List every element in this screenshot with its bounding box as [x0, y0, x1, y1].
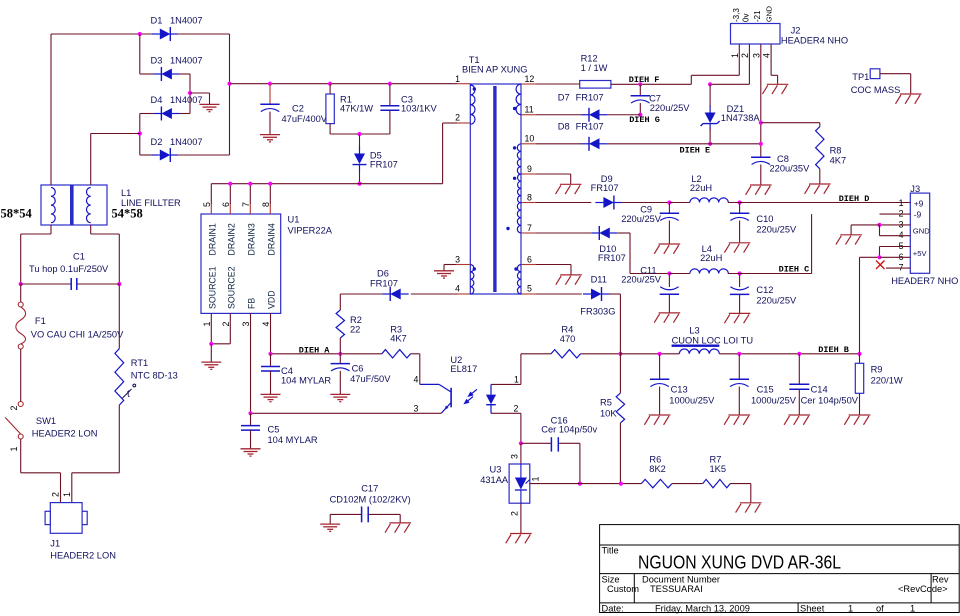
terminal F1 top [18, 302, 23, 307]
svg-text:22: 22 [350, 325, 360, 335]
capacitor C5 104 MYLAR [241, 426, 260, 431]
svg-text:-3,3: -3,3 [732, 8, 741, 22]
svg-text:58*54: 58*54 [1, 207, 33, 221]
label C4 value [281, 366, 331, 386]
wire TP1 to ground [880, 74, 911, 94]
svg-text:D3: D3 [151, 56, 163, 66]
svg-text:<RevCode>: <RevCode> [898, 584, 948, 594]
svg-text:NGUON XUNG DVD AR-36L: NGUON XUNG DVD AR-36L [638, 552, 841, 573]
junction R4/D11/R5 node [618, 352, 622, 356]
capacitor C7 220u/25V [631, 96, 650, 103]
svg-text:4: 4 [762, 53, 772, 58]
label TP1 COC MASS [851, 72, 901, 95]
svg-text:D6: D6 [377, 269, 389, 279]
svg-text:104 MYLAR: 104 MYLAR [268, 435, 318, 445]
wire C8 to ground [760, 165, 762, 185]
svg-text:C17: C17 [361, 484, 378, 494]
svg-text:HEADER4 NHO: HEADER4 NHO [781, 36, 848, 46]
RT1 t-degree mark [123, 384, 136, 400]
svg-text:2: 2 [509, 511, 519, 516]
svg-text:Friday, March 13, 2009: Friday, March 13, 2009 [655, 603, 750, 613]
wire L1 right bottom [91, 225, 120, 284]
svg-text:22uH: 22uH [690, 183, 712, 193]
wire J3 pin7 stub [886, 267, 910, 269]
svg-text:C12: C12 [756, 285, 773, 295]
svg-text:C5: C5 [268, 425, 280, 435]
pin stub U1 pin 5 [210, 204, 212, 214]
svg-text:Size: Size [602, 574, 620, 584]
diode D6 FR107 [382, 287, 409, 301]
pin numbers T1 left [455, 74, 460, 294]
svg-text:1N4738A: 1N4738A [721, 113, 761, 123]
wire SW1 to J1 [21, 439, 61, 503]
wire L4 left lead [669, 273, 690, 275]
pin stub T1 pin1 [457, 83, 470, 85]
svg-text:1K5: 1K5 [710, 464, 727, 474]
diode D2 1N4007 [152, 148, 179, 162]
resistor R2 22 [336, 310, 344, 338]
wire into D3 cathode [140, 73, 154, 75]
T1 winding dot pin6 [514, 267, 517, 270]
svg-text:HEADER7 NHO: HEADER7 NHO [891, 276, 958, 286]
svg-text:J3: J3 [910, 184, 920, 194]
wire T1 pin3 to ground [444, 265, 456, 271]
wire C17 left lead [330, 514, 361, 523]
wire C13 to ground [659, 387, 661, 415]
svg-text:7: 7 [241, 202, 251, 207]
label D5 value [370, 151, 398, 170]
ground C8 [746, 185, 772, 195]
zener DZ1 1N4738A [701, 106, 720, 131]
svg-text:FR107: FR107 [370, 160, 398, 170]
label D6 value [370, 269, 398, 289]
switch SW1 lever [5, 418, 21, 435]
svg-text:220u/35V: 220u/35V [770, 164, 811, 174]
wire J3 pin2 stub [880, 213, 911, 215]
junction R2/C6 node [338, 352, 342, 356]
wire J3 gnd branch [851, 225, 879, 235]
wire D2 cathode to output [178, 154, 229, 156]
svg-text:VO CAU CHI 1A/250V: VO CAU CHI 1A/250V [31, 330, 124, 340]
svg-text:HEADER2 LON: HEADER2 LON [50, 551, 116, 561]
junction L4/C12 node [738, 271, 742, 275]
svg-text:54*58: 54*58 [112, 207, 143, 221]
wire J3 pin5 stub [880, 246, 911, 248]
svg-text:CD102M (102/2KV): CD102M (102/2KV) [330, 495, 411, 505]
svg-text:J2: J2 [791, 26, 801, 36]
label R5 value [600, 398, 617, 419]
junction D1 anode node [138, 32, 142, 36]
connector J1 HEADER2 LON body [45, 503, 87, 534]
svg-text:SOURCE1: SOURCE1 [208, 266, 218, 309]
label T1 BIEN AP XUNG [462, 55, 527, 75]
wire R2 top lead [339, 294, 341, 310]
svg-text:DIEH F: DIEH F [629, 75, 660, 85]
ground C2 [260, 135, 280, 142]
svg-text:DIEH A: DIEH A [299, 346, 331, 356]
testpoint TP1 COC MASS [870, 69, 880, 79]
svg-text:Sheet: Sheet [800, 603, 825, 613]
svg-text:CUON LOC LOI TU: CUON LOC LOI TU [672, 336, 753, 346]
svg-text:of: of [876, 603, 884, 613]
wire C1 right to RT1 [118, 284, 120, 349]
svg-text:-21: -21 [753, 10, 762, 22]
label D1 1N4007 [151, 16, 203, 26]
svg-text:47uF/50V: 47uF/50V [350, 374, 391, 384]
T1 winding dot pin7 [506, 227, 509, 230]
pin numbers T1 right [525, 74, 535, 294]
junction +5V/R9 node [857, 352, 861, 356]
svg-text:NTC 8D-13: NTC 8D-13 [131, 371, 178, 381]
svg-text:4: 4 [414, 375, 419, 385]
svg-text:Custom: Custom [607, 584, 639, 594]
resistor R1 47K/1W [326, 94, 334, 124]
ground bridge [200, 104, 220, 111]
wire C9 top lead [668, 203, 670, 214]
transformer T1 body [470, 84, 521, 294]
T1 winding dot pin3 [473, 267, 476, 270]
svg-text:D8: D8 [558, 122, 570, 132]
svg-text:6: 6 [527, 255, 532, 265]
svg-text:220/1W: 220/1W [871, 376, 903, 386]
wire J2 pin3 vertical [760, 44, 762, 157]
pin names J3 [913, 198, 930, 258]
capacitor C1 Tu hop 0.1uF/250V [71, 278, 77, 290]
wire T1 pin12 to R12 [536, 83, 580, 85]
svg-text:3: 3 [751, 53, 761, 58]
pin stub T1 pin10 [521, 143, 536, 145]
wire C7 bottom lead [639, 103, 641, 115]
T1 secondary winding 12-11 [516, 84, 521, 115]
diode D7 FR107 [581, 108, 608, 122]
L1 right winding [86, 188, 90, 223]
svg-text:3: 3 [455, 255, 460, 265]
resistor R4 470 [551, 350, 581, 358]
junction VDD/C4 node [268, 352, 272, 356]
T1 winding dot pin1 [473, 87, 476, 90]
wire bridge output vertical [229, 34, 231, 155]
wire R4 left lead [521, 353, 551, 355]
junction D3/D4 ground node [188, 91, 192, 95]
svg-text:D1: D1 [151, 16, 163, 26]
svg-text:4: 4 [261, 322, 271, 327]
label U2 EL817 [450, 355, 477, 374]
junction D4/D2 node [138, 131, 142, 135]
pin stub T1 pin4 [457, 293, 470, 295]
opto U2 LED [486, 384, 496, 413]
label C6 value [350, 364, 391, 385]
svg-text:GND: GND [764, 6, 773, 22]
wire R4 to node [581, 353, 621, 355]
svg-text:TP1: TP1 [852, 72, 869, 82]
label R7 value [710, 455, 727, 475]
svg-text:T1: T1 [469, 55, 480, 65]
svg-text:1: 1 [848, 603, 853, 613]
label C11 value [621, 266, 662, 285]
svg-text:22uH: 22uH [700, 253, 722, 263]
wire C6 to ground [339, 371, 341, 394]
svg-text:1000u/25V: 1000u/25V [751, 396, 797, 406]
wire C15 top lead [738, 354, 740, 380]
label R12 value [581, 54, 608, 74]
wire U3 cathode to ground [520, 503, 522, 533]
svg-text:L3: L3 [689, 326, 699, 336]
svg-text:C4: C4 [281, 366, 293, 376]
label L1 LINE FILLTER [121, 188, 181, 208]
wire R8 to ground [819, 169, 821, 184]
junction U2 pin2/C16/U3 node [519, 441, 523, 445]
L1 core bar [70, 185, 74, 225]
label C12 value [756, 285, 797, 306]
junction U1 pin 7 on drain bus [248, 182, 252, 186]
label J3 HEADER7 NHO [891, 184, 958, 286]
wire U3 ref pin [520, 443, 522, 464]
svg-text:Rev: Rev [932, 574, 949, 584]
svg-text:1: 1 [62, 492, 72, 497]
svg-text:8: 8 [527, 193, 532, 203]
label J1 HEADER2 LON [50, 539, 116, 561]
capacitor C10 220u/25V [730, 213, 749, 220]
ic U3 431AA body [509, 464, 530, 503]
label L3 [672, 326, 753, 346]
junction C15 node [737, 352, 741, 356]
svg-text:DIEH E: DIEH E [680, 145, 711, 155]
T1 winding dot pin9 [513, 177, 516, 180]
ic U1 VIPER22A body [201, 214, 281, 313]
title block frame [600, 525, 960, 613]
svg-text:9: 9 [527, 164, 532, 174]
wire J3 pin3 stub [880, 224, 911, 226]
svg-text:VIPER22A: VIPER22A [288, 226, 333, 236]
ground R7 [736, 503, 762, 513]
svg-text:R2: R2 [350, 315, 362, 325]
resistor R3 4K7 [382, 350, 411, 358]
wire C7 top lead [639, 84, 641, 95]
junction FB/C5 node [248, 411, 252, 415]
connector J2 HEADER4 NHO body [731, 24, 781, 45]
junction U1 pin 8 on drain bus [268, 182, 272, 186]
wire HV bus to T1 pin1 [230, 83, 458, 85]
svg-text:RT1: RT1 [131, 358, 148, 368]
capacitor C4 104 MYLAR [261, 367, 280, 372]
svg-text:2: 2 [455, 113, 460, 123]
junction DZ1 top node [708, 82, 712, 86]
capacitor C17 CD102M [362, 507, 369, 523]
svg-text:7: 7 [527, 223, 532, 233]
wire AC2 from L1 to bridge [91, 133, 140, 135]
svg-text:C15: C15 [757, 385, 774, 395]
svg-text:R8: R8 [830, 146, 842, 156]
wire C3 top lead [389, 84, 391, 106]
svg-text:2: 2 [514, 404, 519, 414]
label D9 value [591, 174, 619, 193]
capacitor C2 47uF/400V [260, 104, 279, 111]
fuse F1 VO CAU CHI 1A/250V [16, 307, 26, 344]
svg-text:1: 1 [514, 375, 519, 385]
svg-text:DRAIN2: DRAIN2 [227, 223, 237, 255]
wire U1 drain pin 5 [210, 184, 212, 204]
svg-text:220u/25V: 220u/25V [621, 275, 662, 285]
wire DIEH E row [608, 143, 761, 145]
wire R8 branch [761, 123, 820, 127]
T1 winding dot pin11 [513, 107, 516, 110]
T1 core bar [493, 86, 496, 292]
wire U2 pin2 to C16 [491, 413, 521, 443]
ground R8 [805, 184, 831, 194]
svg-text:C9: C9 [640, 205, 652, 215]
svg-text:220u/25V: 220u/25V [650, 103, 691, 113]
capacitor C6 47uF/50V [331, 364, 350, 371]
svg-text:220u/25V: 220u/25V [756, 225, 797, 235]
junction C16/R6 row node [578, 482, 582, 486]
wire DIEH B row left [620, 353, 679, 355]
svg-text:HEADER2 LON: HEADER2 LON [32, 429, 98, 439]
svg-text:1: 1 [910, 603, 915, 613]
svg-text:U3: U3 [490, 465, 502, 475]
wire C3 bottom lead [389, 110, 391, 134]
label C14 value [801, 385, 859, 406]
junction R1 top on bus [328, 82, 332, 86]
svg-text:12: 12 [525, 74, 535, 84]
pin stub T1 pin3 [456, 264, 470, 266]
resistor R6 8K2 [641, 479, 672, 487]
label D3 1N4007 [151, 56, 203, 66]
wire R1-C3 bottom row [330, 133, 390, 135]
L3 underline highlight [672, 345, 720, 347]
ground T1 pin6 [556, 275, 582, 285]
diode D10 FR107 [591, 226, 618, 240]
capacitor C12 220u/25V [730, 287, 749, 295]
capacitor C9 220u/25V [660, 213, 679, 220]
wire L1 right top [90, 134, 92, 186]
wire C17 right lead [369, 514, 400, 522]
svg-text:L1: L1 [121, 188, 131, 198]
wire U1 VDD down [270, 313, 272, 353]
svg-text:1N4007: 1N4007 [170, 137, 203, 147]
inductor L3 CUON LOC LOI TU [679, 349, 719, 354]
wire C2 top lead [269, 84, 271, 104]
wire D1 cathode to output bus [178, 33, 229, 35]
wire source join [211, 343, 230, 345]
wire R9 top lead [859, 354, 861, 364]
wire D4 anode right [180, 113, 190, 115]
label C7 value [649, 94, 690, 114]
wire C12 top lead [739, 274, 741, 288]
terminal F1 bottom [18, 344, 23, 349]
wire U1 drain bus [211, 183, 442, 185]
ground U1 source [201, 362, 221, 369]
wire C9 to ground [668, 221, 670, 244]
label SW1 HEADER2 LON [32, 416, 98, 439]
svg-text:t: t [127, 389, 130, 400]
wire R5 top lead [619, 354, 621, 393]
pin stub T1 pin11 [521, 114, 536, 116]
ground C4 [261, 394, 281, 401]
wire L2 left lead [669, 202, 690, 204]
wire source to ground [210, 344, 212, 362]
capacitor C15 1000u/25V [730, 379, 749, 386]
pin stub U1 pin 8 [269, 204, 271, 214]
T1 secondary winding 6-5 [517, 264, 521, 294]
wire U1 drain pin 6 [229, 184, 231, 204]
svg-text:1000u/25V: 1000u/25V [669, 396, 715, 406]
wire R6-R7 [672, 483, 703, 485]
wire C5 top lead [250, 413, 252, 425]
wire D11 out [610, 294, 621, 354]
pin stub T1 pin8 [521, 202, 536, 204]
wire T1 pin2 drop [442, 123, 444, 184]
junction C2 on bus [268, 82, 272, 86]
svg-text:Title: Title [602, 546, 619, 556]
label D7 value [558, 93, 604, 103]
L1 left winding [51, 188, 55, 223]
wire DZ1 bottom lead [709, 129, 711, 144]
ground C15 [724, 415, 750, 425]
label D8 value [558, 122, 604, 132]
wire C14 top lead [798, 354, 800, 385]
label D10 value [598, 244, 626, 263]
ground U3 [506, 534, 532, 544]
label C3 value [401, 95, 437, 114]
wire U2 pin1 to R4 [491, 354, 521, 385]
ground C17 right [385, 523, 411, 533]
capacitor C13 1000u/25V [650, 379, 669, 386]
wire C2 to ground [269, 112, 271, 135]
wire J3 pin3-pin4 tie [880, 225, 911, 236]
svg-text:F1: F1 [35, 316, 46, 326]
U3 431 internal symbol [515, 464, 530, 503]
wire D6 to T1 pin4 [411, 293, 457, 295]
wire C11 top lead [668, 274, 670, 288]
capacitor C14 Cer 104p/50V [789, 384, 809, 389]
svg-text:Date:: Date: [602, 603, 624, 613]
svg-text:FR107: FR107 [598, 253, 626, 263]
wire T1 pin5 to D11 [536, 293, 582, 295]
svg-text:-9: -9 [914, 209, 922, 219]
wire T1 pin8 to D9 [536, 202, 591, 204]
wire D7 to C7 [608, 114, 641, 116]
ground C12 [724, 313, 750, 323]
wire C1 left lead [21, 283, 71, 285]
svg-text:220u/25V: 220u/25V [756, 296, 797, 306]
label DZ1 value [721, 104, 761, 123]
wire R12 to J2 pin1 [611, 44, 739, 84]
svg-text:D7: D7 [558, 93, 570, 103]
wire U1 source1 down [210, 313, 212, 343]
label D2 1N4007 [151, 137, 203, 147]
wire C13 top lead [659, 354, 661, 380]
wire T1 pin9 to ground [536, 174, 571, 184]
ground C10 [724, 243, 750, 253]
svg-text:1N4007: 1N4007 [170, 16, 203, 26]
label C13 value [669, 385, 715, 406]
diode D8 FR107 [581, 137, 608, 151]
wire C1 right lead [77, 283, 119, 285]
wire DIEH D row to J3 pin1 [728, 202, 910, 204]
resistor R9 220/1W [855, 363, 863, 393]
opto U2 light arrows [465, 389, 477, 403]
label C15 value [751, 385, 797, 406]
svg-text:1: 1 [9, 447, 19, 452]
junction U1 pin 6 on drain bus [228, 182, 232, 186]
junction C7 bottom node [638, 113, 642, 117]
label C5 value [268, 425, 318, 446]
svg-text:J1: J1 [50, 539, 60, 549]
junction J3 pin6 node [877, 255, 881, 259]
svg-text:EL817: EL817 [450, 364, 477, 374]
inductor L4 22uH [690, 269, 728, 274]
svg-text:1: 1 [202, 322, 212, 327]
